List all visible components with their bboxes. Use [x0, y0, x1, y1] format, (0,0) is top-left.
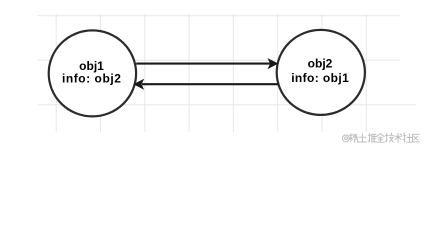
svg-text:info: obj1: info: obj1 [291, 71, 349, 85]
svg-text:info: obj2: info: obj2 [62, 72, 122, 86]
svg-text:obj1: obj1 [79, 59, 104, 73]
svg-text:obj2: obj2 [308, 56, 333, 70]
